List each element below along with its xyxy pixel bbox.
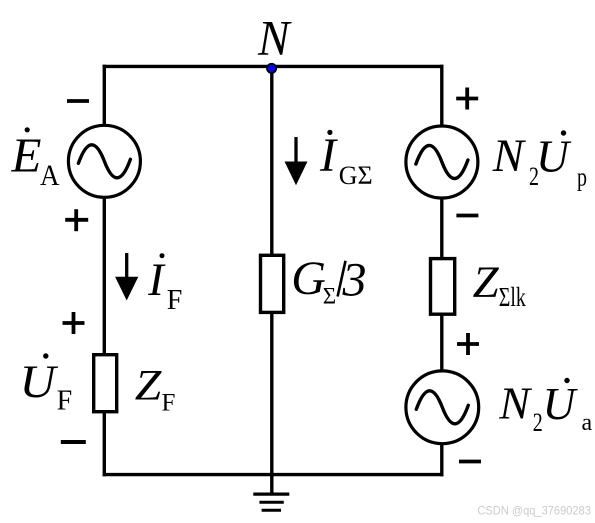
- svg-text:GΣ: GΣ: [339, 161, 373, 190]
- svg-text:U: U: [543, 378, 579, 429]
- source N2Up plus polarity: [456, 88, 478, 110]
- label I_GSigma: [319, 129, 373, 190]
- svg-text:CSDN @qq_37690283: CSDN @qq_37690283: [477, 504, 591, 517]
- svg-text:N: N: [498, 378, 532, 429]
- label U_F: [20, 353, 73, 416]
- svg-text:F: F: [57, 385, 73, 416]
- svg-text:N: N: [257, 9, 292, 65]
- resistor Z_F minus polarity: [61, 440, 86, 444]
- source E_A plus polarity: [65, 209, 88, 231]
- svg-text:2: 2: [533, 408, 543, 437]
- resistor Z_F plus polarity: [63, 312, 85, 334]
- source E_A circle: [68, 125, 140, 197]
- wire left vertical upper: [103, 65, 106, 127]
- svg-text:N: N: [492, 131, 527, 182]
- svg-text:G: G: [291, 252, 326, 305]
- svg-text:a: a: [582, 410, 593, 436]
- label N2Ua: [498, 378, 592, 438]
- source E_A minus polarity: [67, 99, 89, 103]
- label I_F: [147, 253, 182, 316]
- svg-text:F: F: [162, 390, 176, 417]
- wire left vertical lower: [103, 412, 106, 477]
- current arrow I_F: [115, 253, 138, 301]
- svg-text:Z: Z: [135, 363, 163, 410]
- svg-text:Σ: Σ: [323, 283, 336, 308]
- current arrow I_GSigma: [285, 137, 308, 185]
- svg-text:I: I: [319, 129, 338, 182]
- wire right vertical mid1: [440, 197, 443, 259]
- wire left vertical middle: [103, 196, 106, 356]
- resistor Z_F body: [94, 355, 117, 412]
- svg-text:U: U: [20, 357, 60, 408]
- svg-text:E: E: [11, 128, 42, 183]
- wire right vertical lower: [440, 443, 443, 477]
- wire bottom horizontal: [103, 473, 444, 476]
- label Z_F: [135, 363, 176, 417]
- wire right vertical upper: [440, 65, 443, 128]
- source N2Ua plus polarity: [457, 333, 479, 355]
- source N2Ua minus polarity: [459, 460, 481, 464]
- svg-text:F: F: [167, 285, 183, 316]
- svg-text:U: U: [536, 130, 572, 181]
- node N junction dot: [267, 64, 276, 73]
- wire middle vertical upper: [270, 65, 273, 256]
- source N2Ua circle: [406, 371, 479, 444]
- source N2Up circle: [406, 126, 478, 198]
- label N2Up: [492, 130, 587, 191]
- wire top horizontal: [103, 65, 444, 68]
- svg-text:Σlk: Σlk: [499, 282, 526, 312]
- svg-text:Z: Z: [473, 257, 500, 307]
- svg-text:I: I: [147, 255, 166, 306]
- svg-text:p: p: [577, 163, 587, 192]
- label G_Sigma/3: [291, 252, 366, 308]
- label E_A: [11, 127, 61, 192]
- svg-text:A: A: [40, 160, 60, 192]
- svg-text:3: 3: [342, 253, 367, 306]
- wire right vertical mid2: [440, 314, 443, 373]
- label Z_Sigmalk: [473, 257, 527, 313]
- wire middle vertical lower + ground stem: [270, 312, 273, 494]
- resistor Z_Sigmalk body: [431, 259, 455, 315]
- resistor G_Sigma/3 body: [261, 255, 284, 312]
- ground: [253, 494, 289, 510]
- source N2Up minus polarity: [456, 214, 478, 218]
